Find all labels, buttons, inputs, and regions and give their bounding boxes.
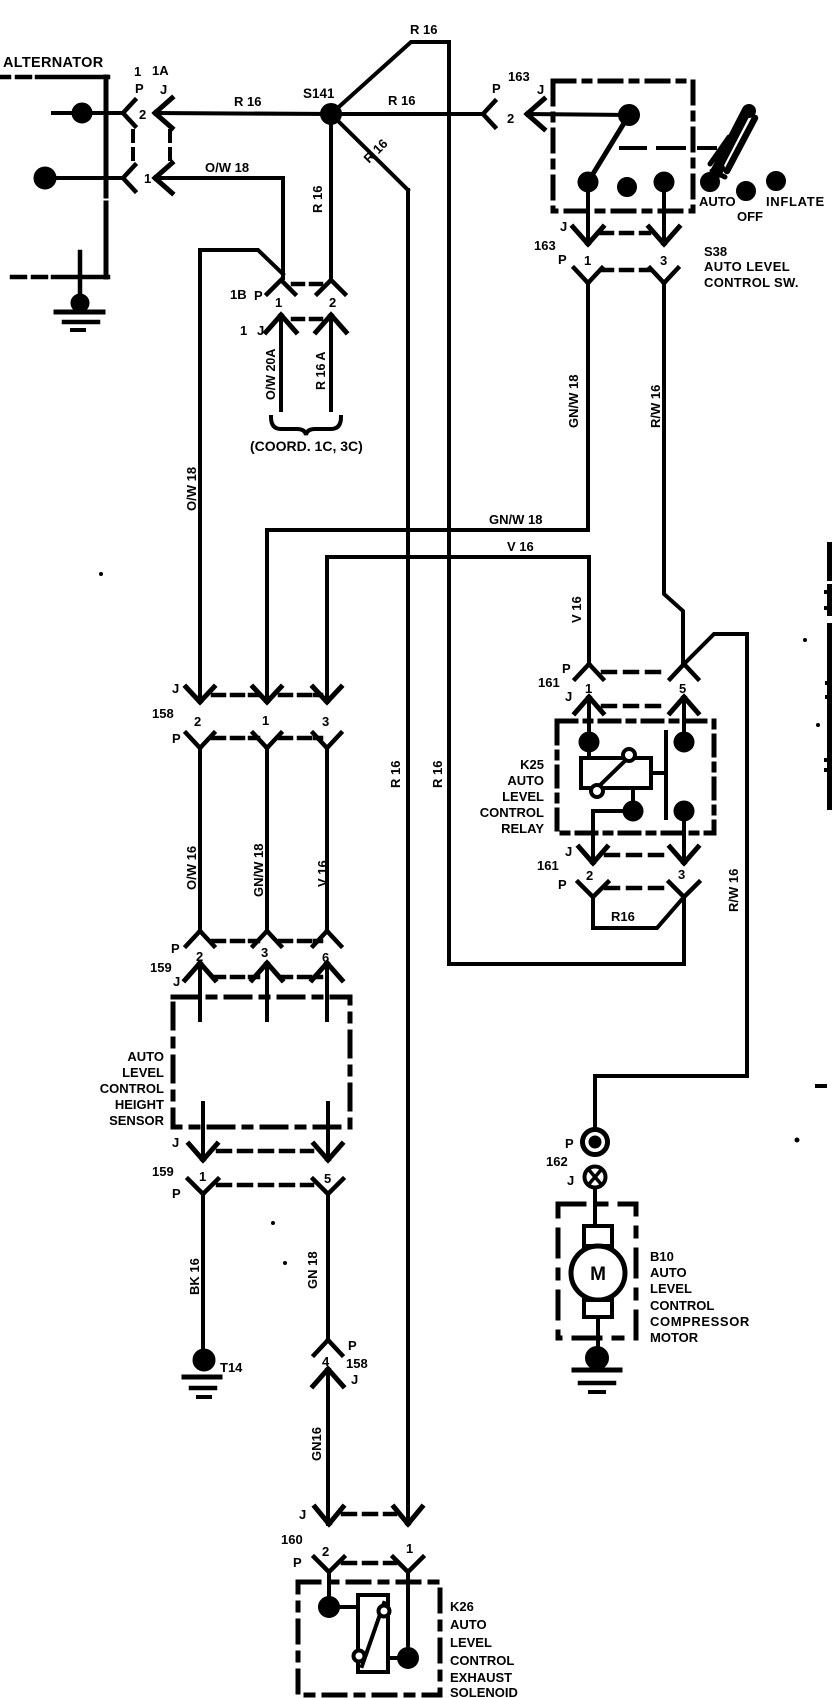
alternator box dashed top edge <box>0 75 108 80</box>
connector 158 pin 3 P half <box>313 733 341 748</box>
height sensor dashed box <box>173 997 350 1127</box>
wire from INFLATE contact down <box>662 182 666 244</box>
svg-text:T14: T14 <box>220 1360 243 1375</box>
wire label V 16 vertical <box>569 596 584 623</box>
svg-text:P: P <box>562 661 571 676</box>
svg-text:CONTROL: CONTROL <box>100 1081 164 1096</box>
wire GN16 <box>326 1369 330 1524</box>
wire label GN/W 18 <box>251 844 266 897</box>
connector 160 J dashes <box>343 1512 395 1517</box>
svg-text:161: 161 <box>537 858 559 873</box>
svg-text:1: 1 <box>199 1169 206 1184</box>
svg-text:B10: B10 <box>650 1249 674 1264</box>
connector 159 bottom labels <box>152 1135 181 1201</box>
svg-text:J: J <box>173 974 180 989</box>
wire R 16 A stub <box>329 315 333 410</box>
wire O/W 18 branch to connector 158 <box>200 250 283 702</box>
switch pivot node <box>620 106 638 124</box>
wire from AUTO contact down <box>586 182 590 244</box>
connector 159 P dashes <box>213 939 321 944</box>
svg-text:1: 1 <box>584 253 591 268</box>
svg-text:1: 1 <box>262 713 269 728</box>
svg-text:163: 163 <box>508 69 530 84</box>
connector 163 bottom labels <box>534 219 567 267</box>
wire label R 16 vertical <box>310 186 325 213</box>
switch S38 name label <box>704 244 799 290</box>
connector 1B labels <box>230 287 263 303</box>
svg-text:J: J <box>351 1372 358 1387</box>
wire R 16 feed along bottom to pin 3 <box>449 897 684 964</box>
connector 161 pin 1 P half <box>575 664 603 679</box>
svg-text:BK 16: BK 16 <box>187 1258 202 1295</box>
connector 159 pin 2 J arrow <box>185 963 215 980</box>
svg-text:5: 5 <box>324 1171 331 1186</box>
connector 161 top J dashes <box>603 704 659 709</box>
svg-text:COMPRESSOR: COMPRESSOR <box>650 1314 750 1329</box>
ground T14 <box>184 1351 220 1398</box>
wire label GN/W 18 vertical <box>566 375 581 428</box>
connector 162 labels <box>546 1136 574 1188</box>
switch contact OFF <box>619 179 635 195</box>
connector 1J pin 2 J half arrow <box>316 315 346 332</box>
connector 160 labels <box>281 1507 306 1570</box>
ground G2 (motor) <box>574 1348 620 1392</box>
wire BK 16 <box>201 1194 205 1352</box>
alternator internal bus wire <box>104 77 109 277</box>
alternator terminal 1 <box>36 169 124 188</box>
svg-text:LEVEL: LEVEL <box>450 1635 492 1650</box>
switch contact INFLATE <box>656 174 673 191</box>
splice S141 <box>322 105 340 123</box>
svg-text:159: 159 <box>152 1164 174 1179</box>
connector 163 pin 2 label <box>507 111 514 126</box>
svg-text:GN/W 18: GN/W 18 <box>251 844 266 897</box>
wire label GN/W 18 horizontal <box>489 512 542 527</box>
svg-text:R 16: R 16 <box>310 186 325 213</box>
svg-text:2: 2 <box>194 714 201 729</box>
relay coil feed wire <box>587 697 591 742</box>
wire V 16 to sensor <box>325 748 329 931</box>
svg-text:AUTO LEVEL: AUTO LEVEL <box>704 259 790 274</box>
svg-text:CONTROL: CONTROL <box>450 1653 514 1668</box>
ground G1 (alternator) <box>56 296 103 331</box>
sensor input stub wires <box>200 963 327 1020</box>
svg-text:P: P <box>172 731 181 746</box>
connector 158 pin numbers <box>194 713 329 729</box>
wire label O/W 18 <box>205 160 249 175</box>
connector 158 pin 1 P half <box>253 733 281 748</box>
svg-text:P: P <box>558 877 567 892</box>
svg-text:GN/W 18: GN/W 18 <box>489 512 542 527</box>
switch knob lever <box>710 104 756 183</box>
svg-text:AUTO: AUTO <box>450 1617 487 1632</box>
connector 1B pin 2 P half <box>317 280 345 294</box>
connector 1J labels <box>240 323 264 338</box>
svg-text:2: 2 <box>139 107 146 122</box>
svg-text:2: 2 <box>507 111 514 126</box>
wire GN/W 18 from switch pin 1 <box>267 283 588 702</box>
connector 161 bottom pin 3 P half <box>669 882 699 897</box>
connector 159 bottom pin 5 P half <box>313 1179 343 1194</box>
legend dot OFF <box>738 183 754 199</box>
svg-text:AUTO: AUTO <box>507 773 544 788</box>
svg-text:CONTROL: CONTROL <box>650 1298 714 1313</box>
svg-text:CONTROL: CONTROL <box>480 805 544 820</box>
wire R 16 diagonal down from S141 <box>331 114 408 190</box>
sensor output stub wires <box>203 1103 328 1160</box>
relay coil to contact link <box>651 771 666 775</box>
svg-text:AUTO: AUTO <box>650 1265 687 1280</box>
svg-text:J: J <box>160 82 167 97</box>
connector 159 pin 3 P half <box>253 931 281 946</box>
wire label R 16 on diagonal <box>361 136 391 166</box>
svg-text:159: 159 <box>150 960 172 975</box>
connector 161 bottom J dashes <box>606 853 662 858</box>
svg-text:V 16: V 16 <box>507 539 534 554</box>
svg-text:3: 3 <box>322 714 329 729</box>
svg-text:R/W 16: R/W 16 <box>726 869 741 912</box>
connector 159 bottom pin 1 J arrow <box>189 1144 217 1160</box>
svg-text:K26: K26 <box>450 1599 474 1614</box>
connector 163 pin 2 P half <box>483 101 495 127</box>
svg-text:2: 2 <box>586 868 593 883</box>
svg-text:P: P <box>172 1186 181 1201</box>
wire R 16 from S141 down to connector 1B <box>329 114 333 280</box>
wire label R 16 beside left vertical <box>388 761 403 788</box>
connector 158 pin 4 P half <box>314 1340 342 1355</box>
connector 163 bottom pin 3 J arrow <box>649 227 679 244</box>
connector 158 P dashes <box>213 736 321 741</box>
motor M body <box>571 1246 625 1300</box>
switch detent dash-dot line <box>621 146 715 150</box>
alternator box dashed bottom edge <box>12 275 108 280</box>
wire label V 16 <box>507 539 534 554</box>
svg-text:CONTROL SW.: CONTROL SW. <box>704 275 799 290</box>
relay coil return node <box>625 803 642 820</box>
connector 158 labels <box>152 681 181 746</box>
edge artifact bars <box>826 545 832 807</box>
wire label R 16 beside right vertical <box>430 761 445 788</box>
connector 159 bottom pin numbers <box>199 1169 331 1186</box>
wire V 16 down to relay pin 1 <box>587 557 591 664</box>
ground T14 label <box>220 1360 243 1375</box>
motor B10 dashed box <box>558 1204 636 1338</box>
svg-text:163: 163 <box>534 238 556 253</box>
svg-text:LEVEL: LEVEL <box>502 789 544 804</box>
relay K25 dashed box <box>557 721 714 833</box>
relay K25 name label <box>480 757 545 836</box>
connector 159 bottom J dashes <box>218 1149 312 1154</box>
relay node pin5 <box>676 734 693 751</box>
connector 159 bottom pin 1 P half <box>188 1179 218 1194</box>
svg-text:O/W 18: O/W 18 <box>205 160 249 175</box>
svg-text:162: 162 <box>546 1154 568 1169</box>
connector 161 bottom P dashes <box>606 886 662 891</box>
wire R/W 16 relay pin 5 branch <box>684 634 747 664</box>
svg-text:O/W 18: O/W 18 <box>184 467 199 511</box>
connector 163 bottom P dashes <box>601 268 649 273</box>
connector 158 pin 3 J arrow <box>313 687 341 702</box>
svg-text:R 16: R 16 <box>430 761 445 788</box>
svg-text:J: J <box>172 1135 179 1150</box>
svg-text:P: P <box>492 81 501 96</box>
connector C1 pin 1 J half <box>155 163 172 193</box>
svg-text:3: 3 <box>660 253 667 268</box>
legend dot AUTO <box>702 174 718 190</box>
svg-text:158: 158 <box>152 706 174 721</box>
svg-text:GN16: GN16 <box>309 1427 324 1461</box>
svg-text:160: 160 <box>281 1532 303 1547</box>
svg-text:R16: R16 <box>611 909 635 924</box>
svg-text:J: J <box>567 1173 574 1188</box>
alternator ground stem <box>78 252 83 300</box>
wire into switch <box>527 114 629 115</box>
svg-text:J: J <box>537 82 544 97</box>
svg-text:V 16: V 16 <box>569 596 584 623</box>
connector 161 bottom labels <box>537 844 572 892</box>
wire label R/W 16 <box>726 869 741 912</box>
motor brush top <box>584 1226 612 1246</box>
connector C1 labels 1 P / 1A J <box>134 63 169 97</box>
svg-text:1B: 1B <box>230 287 247 302</box>
svg-text:M: M <box>590 1264 606 1285</box>
connector 161 top P dashes <box>603 670 659 675</box>
svg-text:5: 5 <box>679 681 686 696</box>
svg-text:P: P <box>171 941 180 956</box>
connector 163 bottom J dashes <box>601 231 649 236</box>
svg-text:J: J <box>172 681 179 696</box>
svg-text:GN/W 18: GN/W 18 <box>566 375 581 428</box>
connector C1 body dashes <box>133 131 170 159</box>
svg-text:1A: 1A <box>152 63 169 78</box>
svg-text:J: J <box>560 219 567 234</box>
wire label V 16 <box>315 860 330 887</box>
wire GN 18 <box>326 1194 330 1340</box>
motor brush bottom <box>584 1300 612 1317</box>
connector 158 pin 4 J arrow <box>313 1369 343 1386</box>
connector 161 bottom pin 2 P half <box>578 882 608 897</box>
wire label R16 <box>611 909 635 924</box>
svg-text:(COORD. 1C, 3C): (COORD. 1C, 3C) <box>250 438 363 454</box>
wire label O/W 18 vertical <box>184 467 199 511</box>
wire R16 jumper pin2 to pin3 <box>593 897 684 928</box>
wire O/W 18 from C1 pin1 <box>155 178 283 278</box>
connector 159 pin 6 J arrow <box>312 963 342 980</box>
height sensor name label <box>100 1049 165 1128</box>
wire O/W 20A stub <box>279 315 283 410</box>
svg-text:1: 1 <box>144 171 151 186</box>
svg-text:P: P <box>565 1136 574 1151</box>
solenoid K26 dashed box <box>298 1582 440 1695</box>
connector 1B P dashes <box>293 282 321 287</box>
brace under stub wires <box>271 417 341 435</box>
connector 159 labels <box>150 941 180 989</box>
relay coil return wire <box>593 788 633 863</box>
coordinates note <box>250 438 363 454</box>
connector 161 pin 1 J arrow <box>575 697 603 713</box>
connector 161 pin 5 J arrow <box>670 697 698 713</box>
connector 158 pin 2 P half <box>186 733 214 748</box>
connector 159 bottom pin 5 J arrow <box>314 1144 342 1160</box>
svg-text:R/W 16: R/W 16 <box>648 385 663 428</box>
connector 1J dashes <box>293 317 321 322</box>
wire V 16 horizontal <box>327 557 589 702</box>
solenoid K26 name label <box>450 1599 518 1698</box>
svg-text:R 16: R 16 <box>361 136 391 166</box>
connector 161 bottom pin numbers <box>586 867 685 883</box>
relay contact node lower <box>676 803 693 864</box>
stray specks <box>99 572 820 1265</box>
connector 160 pin 1 P half <box>393 1557 423 1572</box>
svg-text:1: 1 <box>134 64 141 79</box>
svg-text:K25: K25 <box>520 757 544 772</box>
svg-text:R 16: R 16 <box>388 761 403 788</box>
solenoid coil element <box>354 1595 390 1672</box>
connector 158 pin 2 J arrow <box>186 687 214 702</box>
alternator box label <box>3 55 104 71</box>
wire R/W 16 to motor <box>595 1076 747 1128</box>
svg-text:ALTERNATOR: ALTERNATOR <box>3 55 104 71</box>
wire R/W 16 down right side <box>745 634 749 1076</box>
relay pin 5 feed wire <box>682 697 686 742</box>
relay coil element <box>581 749 651 797</box>
connector C1 pin 2 label <box>139 107 146 122</box>
alternator terminal 2 <box>53 105 123 122</box>
svg-text:S38: S38 <box>704 244 727 259</box>
svg-text:R 16 A: R 16 A <box>314 352 328 390</box>
connector 161 bottom pin 2 J arrow <box>579 847 607 863</box>
connector 1J pin 1 J half arrow <box>266 315 296 332</box>
svg-text:RELAY: RELAY <box>501 821 544 836</box>
connector 159 pin 2 P half <box>186 931 214 946</box>
svg-text:P: P <box>293 1555 302 1570</box>
svg-text:O/W 20A: O/W 20A <box>264 349 278 400</box>
connector 160 P dashes <box>343 1561 395 1566</box>
connector 160 pin numbers <box>322 1541 413 1559</box>
svg-text:R 16: R 16 <box>410 22 437 37</box>
connector 162 ring terminal P <box>583 1130 608 1155</box>
wire R 16 from C1 pin2 to S141 <box>155 113 331 114</box>
wire label R 16 A <box>314 352 328 390</box>
connector 158 pin 4 label <box>322 1354 330 1369</box>
relay node pin1 <box>581 734 598 759</box>
connector 160 pin 2 P half <box>314 1557 344 1572</box>
svg-text:AUTO: AUTO <box>699 194 736 209</box>
svg-text:O/W 16: O/W 16 <box>184 846 199 890</box>
svg-text:AUTO: AUTO <box>127 1049 164 1064</box>
connector 161 top pin numbers <box>585 681 686 696</box>
svg-text:V 16: V 16 <box>315 860 330 887</box>
svg-text:P: P <box>135 81 144 96</box>
connector 163 bottom pin numbers <box>584 253 667 268</box>
wire label R 16 <box>388 93 415 108</box>
svg-text:MOTOR: MOTOR <box>650 1330 699 1345</box>
relay contact bar <box>664 732 668 818</box>
svg-text:J: J <box>299 1507 306 1522</box>
connector 163 bottom pin 1 J arrow <box>573 227 603 244</box>
edge artifact dash <box>817 1084 825 1088</box>
svg-text:SOLENOID: SOLENOID <box>450 1685 518 1698</box>
connector 160 pin 2 J arrow <box>315 1507 343 1524</box>
connector 1B pin 1 P half <box>267 280 295 294</box>
svg-text:J: J <box>565 844 572 859</box>
svg-text:3: 3 <box>678 867 685 882</box>
svg-text:GN 18: GN 18 <box>305 1251 320 1289</box>
connector 162 bullet J <box>585 1167 606 1188</box>
wire R/W 16 from switch pin 3 <box>664 283 683 664</box>
wire label BK 16 <box>187 1258 202 1295</box>
svg-text:161: 161 <box>538 675 560 690</box>
connector C1 pin 2 J half <box>155 98 172 128</box>
svg-text:R 16: R 16 <box>234 94 261 109</box>
connector 161 top labels <box>538 661 572 704</box>
svg-text:3: 3 <box>261 945 268 960</box>
solenoid node right <box>388 1649 417 1667</box>
wire O/W 16 <box>198 748 202 931</box>
wire R 16 diagonal up from S141 to vertical feed <box>331 42 449 114</box>
wire R 16 long vertical to solenoid <box>406 190 410 1524</box>
connector 158 pin 1 J arrow <box>253 687 281 702</box>
svg-text:J: J <box>257 323 264 338</box>
connector 159 pin numbers <box>196 945 329 965</box>
connector 159 pin 6 P half <box>313 931 341 946</box>
svg-text:2: 2 <box>322 1544 329 1559</box>
solenoid node left <box>320 1598 358 1616</box>
wire label R/W 16 vertical <box>648 385 663 428</box>
connector 161 pin 5 P half <box>670 664 698 679</box>
switch contact AUTO <box>580 174 597 191</box>
svg-text:INFLATE: INFLATE <box>766 194 825 209</box>
connector 158 J dashes <box>213 693 321 698</box>
svg-text:S141: S141 <box>303 86 335 101</box>
svg-text:SENSOR: SENSOR <box>109 1113 165 1128</box>
wire label R 16 top <box>410 22 437 37</box>
svg-text:1: 1 <box>406 1541 413 1556</box>
wire label R 16 <box>234 94 261 109</box>
connector 163 bottom pin 3 P half <box>650 268 678 283</box>
motor ground wire <box>596 1317 600 1352</box>
connector 163 pin 2 J half <box>527 99 544 129</box>
connector 163 top labels <box>492 69 544 97</box>
wire label GN16 <box>309 1427 324 1461</box>
svg-text:2: 2 <box>329 295 336 310</box>
wire into motor <box>593 1188 597 1228</box>
wire R 16 long vertical feed to relay <box>447 42 451 964</box>
connector 159 pin 3 J arrow <box>252 963 282 980</box>
legend labels <box>699 194 825 224</box>
switch S38 dashed box <box>553 81 693 211</box>
svg-text:P: P <box>558 252 567 267</box>
svg-text:EXHAUST: EXHAUST <box>450 1670 512 1685</box>
connector C1 pin 1 P half <box>123 165 135 191</box>
connector 159 J dashes <box>213 975 321 980</box>
svg-text:R 16: R 16 <box>388 93 415 108</box>
connector C1 pin 1 label <box>144 171 151 186</box>
splice S141 label <box>303 86 335 101</box>
solenoid feed wires <box>329 1572 408 1658</box>
svg-text:1: 1 <box>275 295 282 310</box>
connector 158 pin 4 side labels <box>346 1338 368 1387</box>
connector 163 bottom pin 1 P half <box>574 268 602 283</box>
connector 161 bottom pin 3 J arrow <box>670 847 698 863</box>
svg-text:LEVEL: LEVEL <box>122 1065 164 1080</box>
svg-text:HEIGHT: HEIGHT <box>115 1097 164 1112</box>
svg-text:P: P <box>254 288 263 303</box>
wire R 16 from S141 to switch connector <box>331 112 483 116</box>
connector C1 pin 2 P half <box>123 100 135 126</box>
connector 159 bottom P dashes <box>218 1183 312 1188</box>
svg-text:LEVEL: LEVEL <box>650 1281 692 1296</box>
